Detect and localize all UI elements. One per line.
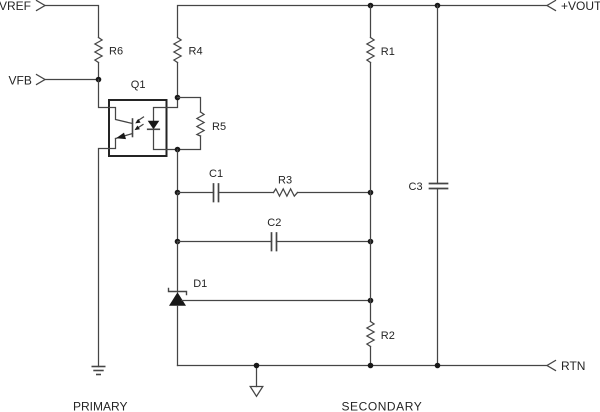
node VFB junction [96, 77, 102, 83]
diode D1 zener [169, 278, 208, 306]
svg-text:R1: R1 [381, 46, 395, 58]
svg-text:D1: D1 [193, 278, 207, 290]
capacitor C2 [267, 217, 281, 251]
node C2 row left junction [175, 239, 181, 245]
wire R1 line C1 row to C2 row [370, 193, 372, 242]
wire VFB [45, 79, 99, 81]
wire R1 line C2 row to D1 row [370, 242, 372, 301]
wire bottom rail to RTN [178, 365, 548, 367]
svg-text:SECONDARY: SECONDARY [342, 400, 423, 412]
svg-text:VREF: VREF [0, 0, 31, 13]
port VREF [0, 0, 45, 13]
node C1 row right junction [368, 190, 374, 196]
ground primary earth [92, 367, 104, 375]
wire C3 to bottom rail [437, 189, 439, 366]
wire top to C3 [437, 6, 439, 184]
node ground junction [254, 363, 260, 369]
resistor R6 [95, 38, 123, 63]
node C2 row right junction [368, 239, 374, 245]
ground secondary [250, 366, 263, 397]
wire optocoupler emitter to primary ground [99, 149, 110, 367]
node top C3 junction [435, 3, 441, 9]
wire node B down to C1 row [177, 150, 179, 193]
wire VFB node to optocoupler collector [99, 80, 110, 108]
svg-text:+VOUT: +VOUT [561, 0, 600, 13]
resistor R3 [274, 174, 298, 196]
capacitor C1 [209, 168, 223, 201]
wire VREF to R6 [45, 6, 99, 38]
port VFB [9, 74, 46, 88]
node B junction [175, 147, 181, 153]
optocoupler Q1 [109, 79, 178, 156]
svg-text:R2: R2 [381, 330, 395, 342]
wire R2 to bottom rail [370, 347, 372, 366]
resistor R5 [178, 98, 227, 150]
wire D1 to bottom rail [177, 306, 179, 366]
wire C1 to R3 [219, 192, 274, 194]
wire R4 to node A [177, 63, 179, 98]
svg-text:RTN: RTN [561, 359, 585, 373]
svg-text:R4: R4 [189, 45, 203, 57]
node bottom R2 junction [368, 363, 374, 369]
resistor R1 [367, 38, 395, 63]
svg-text:R5: R5 [212, 121, 226, 133]
svg-text:R3: R3 [278, 174, 292, 186]
wire C2 row left [178, 241, 272, 243]
svg-text:VFB: VFB [9, 74, 32, 88]
wire R6 to VFB node [98, 63, 100, 80]
resistor R2 [367, 322, 395, 347]
svg-text:C3: C3 [409, 181, 423, 193]
node bottom C3 junction [435, 363, 441, 369]
node top R1 junction [368, 3, 374, 9]
svg-text:C1: C1 [209, 168, 223, 180]
wire C1 row to C2 row left vertical [177, 193, 179, 242]
capacitor C3 [409, 181, 448, 193]
svg-text:R6: R6 [109, 45, 123, 57]
port +VOUT [547, 0, 600, 13]
wire D1 row to R2 [370, 301, 372, 322]
node C1 row left junction [175, 190, 181, 196]
wire C1 row left [178, 192, 214, 194]
wire C2 row right [277, 241, 371, 243]
svg-text:C2: C2 [267, 217, 281, 229]
resistor R4 [174, 38, 203, 63]
svg-text:PRIMARY: PRIMARY [73, 400, 127, 412]
wire top rail R4 to +VOUT [178, 6, 548, 38]
wire top to R1 [370, 6, 372, 38]
wire D1 anode row [182, 300, 371, 302]
port RTN [547, 359, 585, 373]
wire R3 to R1 line [298, 192, 371, 194]
wire C2 row to D1 [177, 242, 179, 293]
node A junction [175, 95, 181, 101]
svg-text:Q1: Q1 [131, 79, 146, 91]
wire R1 down to C1 row [370, 63, 372, 193]
node D1 row right junction [368, 298, 374, 304]
